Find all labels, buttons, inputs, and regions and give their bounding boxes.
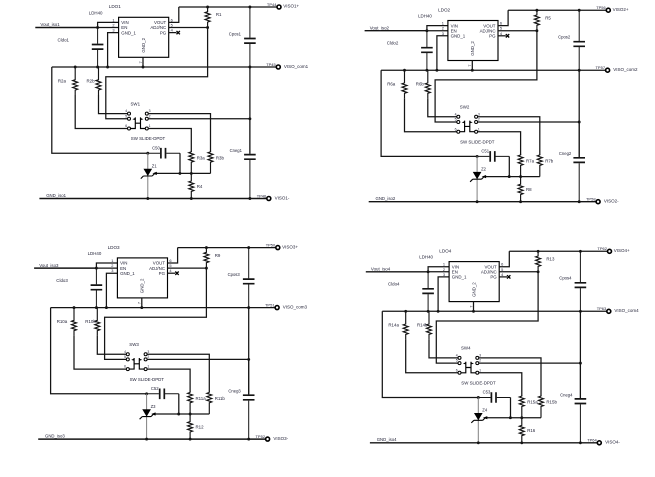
svg-text:GND_2: GND_2 bbox=[140, 278, 145, 293]
wire GND_1 to com rail bbox=[437, 36, 448, 70]
svg-text:7: 7 bbox=[468, 306, 473, 308]
wire EN bbox=[427, 30, 448, 32]
net Vout_iso1 wire bbox=[35, 27, 97, 29]
junction R3a/R4/anode line bbox=[190, 172, 193, 175]
wire GND_2 pin7 to com rail bbox=[473, 302, 475, 312]
wire R2b to SW pin4 bbox=[99, 95, 128, 114]
svg-text:1: 1 bbox=[478, 127, 480, 131]
op-amp/IC LDO2 LDH40 regulator body bbox=[448, 21, 498, 61]
junction bus/gnd rail bbox=[248, 197, 251, 200]
switch SW2 SLIDE-DPDT bbox=[457, 115, 478, 133]
junction pin7/com rail bbox=[142, 66, 145, 69]
switch SW1 SLIDE-DPDT bbox=[128, 112, 149, 130]
wire ADJ/NC stub bbox=[168, 267, 207, 269]
svg-text:R14b: R14b bbox=[417, 323, 428, 328]
wire VIN riser bbox=[96, 263, 117, 268]
net GND_iso1 rail bbox=[39, 198, 266, 200]
svg-text:R3b: R3b bbox=[216, 155, 225, 160]
wire VOUT riser bbox=[499, 251, 509, 266]
resistor R7a bbox=[518, 155, 523, 177]
wire com-rail left drop to C50 bbox=[52, 67, 148, 153]
resistor R8 bbox=[518, 177, 523, 202]
wire GND_1 to com rail bbox=[108, 33, 119, 67]
wire feedback to SW pin5 bbox=[106, 28, 208, 119]
net Vout_iso3 wire bbox=[34, 267, 96, 269]
svg-text:SW SLIDE-DPDT: SW SLIDE-DPDT bbox=[460, 139, 495, 144]
svg-text:R14a: R14a bbox=[388, 323, 399, 328]
junction C50/anode line bbox=[509, 416, 512, 419]
resistor R13 bbox=[536, 251, 541, 271]
zener anode arrowhead bbox=[152, 172, 156, 175]
wire C50 down to anode line bbox=[179, 153, 181, 173]
svg-text:SW1: SW1 bbox=[131, 101, 141, 106]
svg-text:R7b: R7b bbox=[545, 159, 554, 164]
junction Cldo/com rail bbox=[427, 310, 430, 313]
svg-text:6: 6 bbox=[455, 127, 457, 131]
junction SW pin2/bus bbox=[248, 117, 251, 120]
svg-text:PG: PG bbox=[159, 271, 166, 276]
svg-text:Vout_iso1: Vout_iso1 bbox=[40, 22, 60, 27]
junction C50/Z1 bbox=[477, 396, 480, 399]
wire R2a to SW pin6 bbox=[405, 98, 458, 132]
junction C50/Z1 bbox=[476, 155, 479, 158]
capacitor Cpos1 bbox=[244, 7, 256, 67]
svg-text:Cldo4: Cldo4 bbox=[388, 282, 400, 287]
resistor R15b bbox=[539, 396, 544, 418]
capacitor Cldo2 bbox=[421, 31, 433, 70]
svg-text:Z1: Z1 bbox=[152, 163, 158, 168]
junction Cldo/com rail bbox=[95, 306, 98, 309]
svg-text:C50: C50 bbox=[152, 145, 160, 150]
wire R2b to SW pin4 bbox=[429, 339, 458, 358]
svg-text:VISO_com3: VISO_com3 bbox=[283, 304, 308, 309]
switch SW4 SLIDE-DPDT bbox=[458, 356, 479, 374]
wire SW pin3 to R3b bbox=[477, 117, 540, 155]
test point TP58 bbox=[596, 200, 600, 204]
svg-text:4: 4 bbox=[124, 350, 126, 354]
svg-text:R11b: R11b bbox=[215, 396, 226, 401]
svg-text:VISO4+: VISO4+ bbox=[614, 248, 630, 253]
svg-text:5: 5 bbox=[125, 114, 127, 118]
resistor R6b bbox=[425, 70, 430, 98]
junction bus/gnd rail bbox=[578, 200, 581, 203]
svg-text:2: 2 bbox=[479, 359, 481, 363]
junction bus/top rail bbox=[579, 250, 582, 253]
junction GND_1/com rail bbox=[437, 310, 440, 313]
wire feedback to SW pin5 bbox=[436, 272, 538, 363]
svg-text:TP52: TP52 bbox=[256, 434, 266, 439]
zener diode Z2 bbox=[470, 156, 484, 201]
junction bus/gnd rail bbox=[247, 438, 250, 441]
svg-text:3: 3 bbox=[112, 28, 114, 33]
svg-text:C52: C52 bbox=[151, 386, 159, 391]
wire SW pin3 to R3b bbox=[147, 354, 210, 392]
net VISO1+ top rail bbox=[179, 6, 277, 8]
resistor R16 bbox=[519, 418, 524, 443]
wire SW pin1 to R3a bbox=[148, 129, 191, 152]
test point TP46 bbox=[267, 197, 271, 201]
svg-text:Cneg3: Cneg3 bbox=[228, 389, 241, 394]
wire VIN riser bbox=[427, 26, 448, 31]
svg-text:TP46: TP46 bbox=[257, 193, 267, 198]
junction bus/gnd rail bbox=[579, 441, 582, 444]
svg-text:3: 3 bbox=[443, 272, 445, 277]
capacitor Cpos2 bbox=[573, 10, 585, 70]
svg-text:3: 3 bbox=[111, 268, 113, 273]
junction C50/Z1 bbox=[145, 392, 148, 395]
junction Z/gnd rail bbox=[145, 438, 148, 441]
wire VIN riser bbox=[98, 22, 119, 27]
junction R4/gnd rail bbox=[189, 438, 192, 441]
svg-text:TP63: TP63 bbox=[597, 306, 607, 311]
svg-text:TP64: TP64 bbox=[587, 438, 597, 443]
svg-text:VISO_com1: VISO_com1 bbox=[284, 64, 309, 69]
svg-text:Z3: Z3 bbox=[151, 404, 157, 409]
svg-text:6: 6 bbox=[125, 124, 127, 128]
svg-text:R13: R13 bbox=[546, 257, 555, 262]
junction Vout/VIN/EN/Cldo bbox=[425, 29, 428, 32]
resistor R2b bbox=[96, 67, 101, 95]
svg-text:3: 3 bbox=[479, 354, 481, 358]
net VISO3+ top rail bbox=[178, 247, 276, 249]
junction bus/com rail bbox=[247, 306, 250, 309]
svg-text:Cneg2: Cneg2 bbox=[559, 151, 572, 156]
test point TP57 bbox=[606, 68, 610, 72]
svg-text:7: 7 bbox=[138, 61, 143, 63]
svg-text:3: 3 bbox=[442, 31, 444, 36]
svg-text:Cpos1: Cpos1 bbox=[229, 31, 242, 36]
svg-text:LDH40: LDH40 bbox=[418, 14, 432, 19]
wire VOUT riser bbox=[498, 10, 508, 25]
svg-text:TP51: TP51 bbox=[265, 303, 275, 308]
wire GND_1 to com rail bbox=[438, 277, 449, 311]
resistor R6a bbox=[402, 70, 407, 98]
svg-text:LDO2: LDO2 bbox=[438, 7, 450, 12]
svg-text:R7a: R7a bbox=[526, 159, 535, 164]
no-connect X bbox=[177, 31, 180, 34]
svg-text:Cpos2: Cpos2 bbox=[558, 35, 571, 40]
wire zener anode line bbox=[487, 417, 541, 419]
wire R2a to SW pin6 bbox=[406, 339, 459, 373]
circuit block LDO2 bbox=[365, 5, 638, 204]
svg-text:R11a: R11a bbox=[196, 396, 207, 401]
junction R2a/com rail bbox=[403, 69, 406, 72]
wire ADJ/NC stub bbox=[499, 271, 538, 273]
wire R2a to SW pin6 bbox=[74, 336, 127, 370]
svg-text:5: 5 bbox=[455, 118, 457, 122]
wire SW pin3 to R3b bbox=[148, 114, 211, 152]
svg-text:3: 3 bbox=[147, 350, 149, 354]
wire GND_2 pin7 to com rail bbox=[141, 298, 143, 308]
svg-text:VISO1-: VISO1- bbox=[275, 195, 290, 200]
net VISO2+ top rail bbox=[508, 9, 606, 11]
circuit block LDO1 bbox=[35, 2, 308, 201]
junction bus/top rail bbox=[247, 246, 250, 249]
svg-text:GND_2: GND_2 bbox=[141, 37, 146, 52]
test point TP51 bbox=[275, 306, 279, 310]
svg-text:PG: PG bbox=[490, 275, 497, 280]
wire PG stub bbox=[498, 35, 506, 37]
svg-text:SW4: SW4 bbox=[461, 346, 471, 351]
junction GND_1/com rail bbox=[435, 69, 438, 72]
svg-text:R10a: R10a bbox=[57, 319, 68, 324]
svg-text:VISO1+: VISO1+ bbox=[283, 4, 299, 9]
svg-text:R5: R5 bbox=[545, 15, 551, 20]
no-connect X bbox=[175, 272, 178, 275]
svg-text:5: 5 bbox=[124, 355, 126, 359]
svg-text:Vout_iso3: Vout_iso3 bbox=[39, 263, 59, 268]
capacitor Cldo1 bbox=[92, 28, 104, 68]
junction Vout/VIN/EN/Cldo bbox=[95, 267, 98, 270]
capacitor Cpos4 bbox=[575, 251, 587, 311]
svg-text:TP57: TP57 bbox=[596, 65, 606, 70]
junction bus/com rail bbox=[579, 310, 582, 313]
svg-text:R4: R4 bbox=[197, 184, 203, 189]
svg-text:VISO_com2: VISO_com2 bbox=[613, 67, 638, 72]
junction GND_1/com rail bbox=[106, 66, 109, 69]
svg-text:GND_iso4: GND_iso4 bbox=[377, 437, 397, 442]
svg-text:GND_1: GND_1 bbox=[120, 271, 135, 276]
svg-text:4: 4 bbox=[455, 112, 457, 116]
wire SW pin1 to R3a bbox=[478, 373, 521, 396]
wire VIN riser bbox=[428, 267, 449, 272]
net GND_iso3 rail bbox=[38, 438, 265, 440]
svg-text:VISO4-: VISO4- bbox=[605, 440, 620, 445]
svg-text:R15b: R15b bbox=[546, 400, 557, 405]
svg-text:1: 1 bbox=[479, 368, 481, 372]
resistor R3b bbox=[208, 152, 213, 174]
junction Z/gnd rail bbox=[146, 197, 149, 200]
resistor R2a bbox=[73, 67, 78, 95]
resistor R14b bbox=[427, 311, 432, 339]
junction C50/anode line bbox=[178, 172, 181, 175]
svg-text:7: 7 bbox=[137, 302, 142, 304]
test point TP64 bbox=[597, 441, 601, 445]
junction GND_1/com rail bbox=[105, 306, 108, 309]
svg-text:Cneg1: Cneg1 bbox=[230, 148, 243, 153]
wire zener anode line bbox=[155, 413, 209, 415]
wire C50 down to anode line bbox=[508, 156, 510, 176]
capacitor Cneg1 bbox=[244, 119, 256, 199]
svg-text:7: 7 bbox=[467, 65, 472, 67]
wire EN bbox=[98, 27, 119, 29]
resistor R11b bbox=[207, 392, 212, 414]
zener anode arrowhead bbox=[482, 175, 486, 178]
capacitor C52 bbox=[147, 389, 179, 400]
svg-text:SW3: SW3 bbox=[129, 342, 139, 347]
wire com-rail left drop to C50 bbox=[51, 308, 147, 394]
net VISO_com1 common rail bbox=[52, 66, 276, 68]
junction pin7/com rail bbox=[471, 69, 474, 72]
net VISO4+ top rail bbox=[509, 250, 607, 252]
wire ADJ/NC stub bbox=[498, 30, 537, 32]
svg-text:Cpos3: Cpos3 bbox=[228, 272, 241, 277]
svg-text:4: 4 bbox=[456, 354, 458, 358]
svg-text:GND_1: GND_1 bbox=[451, 34, 466, 39]
wire com-rail left drop to C50 bbox=[381, 70, 477, 156]
junction bus/top rail bbox=[578, 9, 581, 12]
zener diode Z1 bbox=[141, 153, 155, 198]
svg-text:R2a: R2a bbox=[58, 78, 67, 83]
svg-text:Vout_iso4: Vout_iso4 bbox=[371, 267, 391, 272]
svg-text:R6a: R6a bbox=[387, 82, 396, 87]
svg-text:VISO3+: VISO3+ bbox=[282, 244, 298, 249]
svg-text:Cpos4: Cpos4 bbox=[559, 276, 572, 281]
junction R2a/com rail bbox=[74, 66, 77, 69]
svg-text:VISO_com4: VISO_com4 bbox=[614, 308, 639, 313]
resistor R11a bbox=[188, 392, 193, 414]
no-connect X bbox=[506, 34, 509, 37]
wire SW pin3 to R3b bbox=[478, 358, 541, 396]
capacitor C51 bbox=[477, 151, 509, 162]
wire EN bbox=[96, 267, 117, 269]
wire com-rail left drop to C50 bbox=[382, 311, 478, 397]
op-amp/IC LDO3 LDH40 regulator body bbox=[117, 258, 167, 298]
net GND_iso4 rail bbox=[370, 442, 597, 444]
wire zener anode line bbox=[156, 172, 210, 174]
capacitor C50 bbox=[148, 148, 180, 159]
wire SW pin1 to R3a bbox=[477, 132, 520, 155]
op-amp/IC LDO4 LDH40 regulator body bbox=[449, 262, 499, 302]
svg-text:SW2: SW2 bbox=[460, 105, 470, 110]
wire bus middle segment bbox=[249, 67, 251, 154]
svg-text:2: 2 bbox=[478, 118, 480, 122]
svg-text:Z2: Z2 bbox=[481, 167, 487, 172]
net Vout_iso4 wire bbox=[366, 271, 428, 273]
wire EN bbox=[428, 271, 449, 273]
capacitor Cpos3 bbox=[243, 248, 255, 308]
svg-text:Z4: Z4 bbox=[482, 408, 488, 413]
svg-text:R2b: R2b bbox=[87, 78, 96, 83]
net VISO_com4 common rail bbox=[382, 310, 607, 312]
junction Z/gnd rail bbox=[477, 441, 480, 444]
svg-text:6: 6 bbox=[124, 365, 126, 369]
svg-text:GND_2: GND_2 bbox=[470, 41, 475, 56]
junction bus/com rail bbox=[248, 66, 251, 69]
junction Z/gnd rail bbox=[476, 200, 479, 203]
wire bus middle segment bbox=[579, 311, 581, 398]
resistor R3a bbox=[189, 152, 194, 174]
net VISO_com2 common rail bbox=[381, 69, 606, 71]
junction Cldo/com rail bbox=[425, 69, 428, 72]
svg-text:R10b: R10b bbox=[85, 319, 96, 324]
wire GND_2 pin7 to com rail bbox=[142, 57, 144, 67]
no-connect X bbox=[507, 275, 510, 278]
zener anode arrowhead bbox=[483, 416, 487, 419]
zener diode Z3 bbox=[140, 394, 154, 439]
junction C50/Z1 bbox=[146, 152, 149, 155]
svg-text:1: 1 bbox=[149, 124, 151, 128]
net VISO_com3 common rail bbox=[51, 307, 275, 309]
junction Vout/VIN/EN/Cldo bbox=[427, 270, 430, 273]
test point TP56 bbox=[606, 8, 610, 12]
wire VOUT riser bbox=[168, 248, 178, 263]
svg-text:C53: C53 bbox=[483, 390, 491, 395]
resistor R15a bbox=[519, 396, 524, 418]
junction SW pin2/bus bbox=[247, 358, 250, 361]
test point TP62 bbox=[608, 249, 612, 253]
capacitor C53 bbox=[478, 392, 510, 403]
junction pin7/com rail bbox=[140, 306, 143, 309]
test point TP45 bbox=[276, 65, 280, 69]
wire R2b to SW pin4 bbox=[428, 98, 457, 117]
svg-text:4: 4 bbox=[125, 109, 127, 113]
svg-text:GND_iso2: GND_iso2 bbox=[376, 196, 396, 201]
svg-text:GND_1: GND_1 bbox=[452, 275, 467, 280]
svg-text:LDH40: LDH40 bbox=[419, 255, 433, 260]
junction C50/anode line bbox=[177, 413, 180, 416]
svg-text:2: 2 bbox=[149, 114, 151, 118]
svg-text:TP45: TP45 bbox=[266, 62, 276, 67]
junction Vout/VIN/EN/Cldo bbox=[96, 26, 99, 29]
svg-text:LDH40: LDH40 bbox=[88, 251, 102, 256]
wire zener anode line bbox=[486, 176, 540, 178]
svg-text:Vout_iso2: Vout_iso2 bbox=[370, 25, 390, 30]
wire R2b to SW pin4 bbox=[97, 336, 126, 355]
junction R3a/R4/anode line bbox=[519, 175, 522, 178]
capacitor Cneg3 bbox=[243, 359, 255, 439]
junction pin7/com rail bbox=[472, 310, 475, 313]
svg-text:VISO3-: VISO3- bbox=[273, 436, 288, 441]
wire SW pin1 to R3a bbox=[147, 369, 190, 392]
wire GND_2 pin7 to com rail bbox=[471, 61, 473, 71]
wire ADJ/NC stub bbox=[169, 27, 208, 29]
junction R-top/top-rail bbox=[205, 246, 208, 249]
wire PG stub bbox=[499, 276, 507, 278]
op-amp/IC LDO1 LDH40 regulator body bbox=[119, 17, 169, 57]
svg-text:R16: R16 bbox=[527, 428, 536, 433]
wire bus middle segment bbox=[248, 308, 250, 395]
junction R3a/R4/anode line bbox=[189, 413, 192, 416]
capacitor Cneg4 bbox=[575, 363, 587, 443]
resistor R4 bbox=[189, 173, 194, 198]
junction R4/gnd rail bbox=[519, 200, 522, 203]
resistor R1 bbox=[205, 7, 210, 28]
svg-text:R12: R12 bbox=[196, 424, 205, 429]
circuit block LDO3 bbox=[34, 243, 307, 442]
svg-text:GND_iso1: GND_iso1 bbox=[46, 193, 66, 198]
svg-text:GND_1: GND_1 bbox=[121, 30, 136, 35]
svg-text:TP50: TP50 bbox=[266, 243, 276, 248]
svg-text:PG: PG bbox=[160, 30, 167, 35]
zener diode Z4 bbox=[471, 398, 485, 443]
wire SW pin2 to bus bbox=[147, 358, 249, 360]
wire C50 down to anode line bbox=[178, 394, 180, 414]
resistor R14a bbox=[403, 311, 408, 339]
svg-text:R6b: R6b bbox=[416, 82, 425, 87]
wire R2a to SW pin6 bbox=[75, 95, 128, 129]
svg-text:TP56: TP56 bbox=[596, 5, 606, 10]
switch SW3 SLIDE-DPDT bbox=[126, 353, 147, 371]
svg-text:TP62: TP62 bbox=[597, 246, 607, 251]
junction R-top/top-rail bbox=[535, 9, 538, 12]
svg-text:Cldo3: Cldo3 bbox=[56, 278, 68, 283]
wire SW pin2 to bus bbox=[148, 118, 250, 120]
svg-text:LDO4: LDO4 bbox=[439, 249, 451, 254]
svg-text:GND_iso3: GND_iso3 bbox=[45, 433, 65, 438]
resistor R5 bbox=[534, 10, 539, 31]
wire GND_1 to com rail bbox=[106, 273, 117, 307]
wire SW pin2 to bus bbox=[478, 362, 580, 364]
junction bus/top rail bbox=[248, 6, 251, 9]
wire VOUT riser bbox=[169, 7, 179, 22]
junction R-top/top-rail bbox=[206, 6, 209, 9]
resistor R9 bbox=[204, 248, 209, 269]
svg-text:Cneg4: Cneg4 bbox=[560, 392, 573, 397]
test point TP52 bbox=[266, 437, 270, 441]
svg-text:LDO3: LDO3 bbox=[108, 245, 120, 250]
wire C50 down to anode line bbox=[510, 398, 512, 418]
